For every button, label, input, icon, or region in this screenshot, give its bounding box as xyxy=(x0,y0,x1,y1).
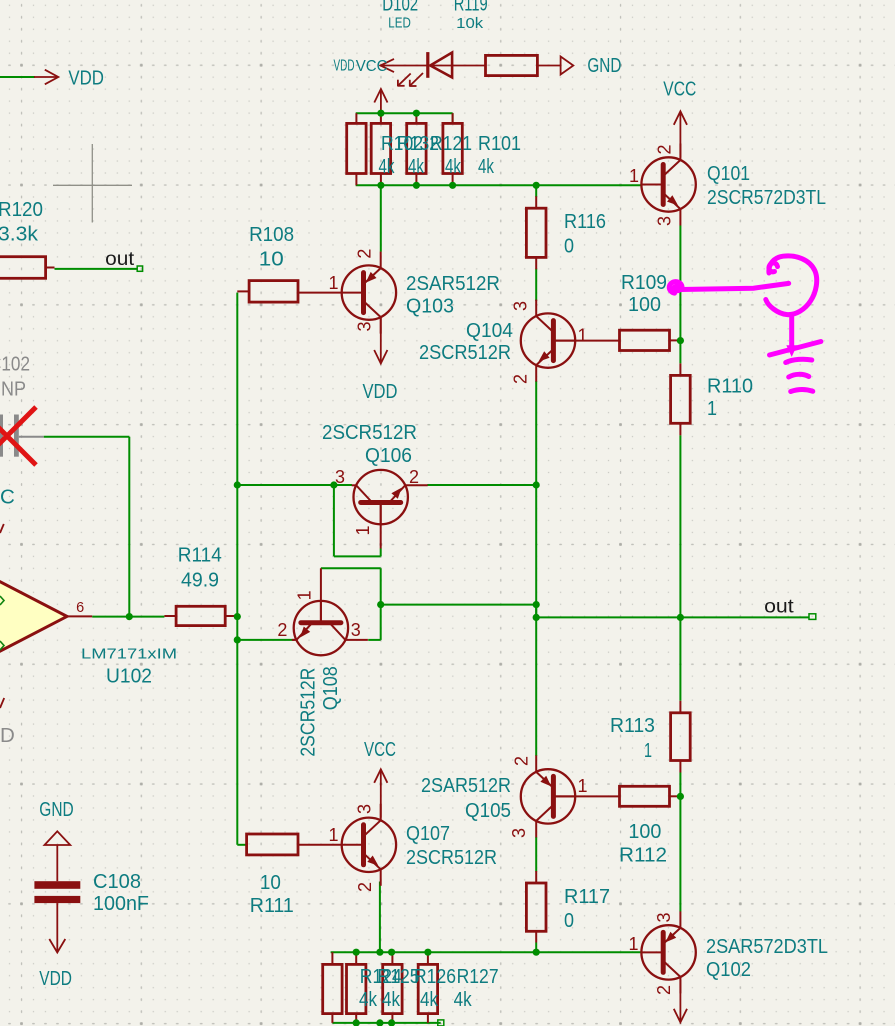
junction at 391.6,952.2 xyxy=(388,949,395,956)
svg-text:49.9: 49.9 xyxy=(181,569,219,592)
junction at 680.4,340.6 xyxy=(677,337,684,344)
wire C102 to output node xyxy=(44,436,130,438)
svg-text:R112: R112 xyxy=(619,844,667,867)
junction at 536.2,952.2 xyxy=(533,949,540,956)
resistor bank top: R102 R132 R121 R101 xyxy=(355,113,357,123)
svg-text:10: 10 xyxy=(259,248,284,271)
svg-text:Q107: Q107 xyxy=(406,822,450,845)
svg-text:VDD: VDD xyxy=(39,967,72,990)
svg-text:R114: R114 xyxy=(178,544,222,567)
dangling end square bottom bank xyxy=(438,1020,444,1026)
junction at 356.2,952.2 xyxy=(353,949,360,956)
wire R116 to Q104 collector xyxy=(535,269,537,301)
power GND right of R119 xyxy=(537,65,560,67)
svg-text:C108: C108 xyxy=(93,870,141,893)
wire R117 to bottom rail xyxy=(535,943,537,953)
svg-text:C: C xyxy=(0,486,15,509)
svg-text:1: 1 xyxy=(628,934,638,954)
svg-text:Q108: Q108 xyxy=(319,666,342,710)
op-amp U102 xyxy=(0,536,67,697)
svg-text:4k: 4k xyxy=(379,155,396,178)
junction at 536.2,604.6 xyxy=(533,601,540,608)
svg-text:R119: R119 xyxy=(454,0,488,16)
svg-text:Q106: Q106 xyxy=(365,444,412,467)
wire out net xyxy=(536,616,809,618)
wire bottom rail xyxy=(331,951,642,953)
power VDD top-left xyxy=(34,76,58,78)
svg-text:LED: LED xyxy=(388,15,411,32)
svg-text:D: D xyxy=(0,724,15,747)
svg-text:3: 3 xyxy=(354,321,374,331)
svg-text:3: 3 xyxy=(509,828,529,838)
power VCC above Q107 xyxy=(380,769,382,817)
junction at 427.9,952.2 xyxy=(424,949,431,956)
resistor R113 xyxy=(679,701,681,713)
svg-text:3: 3 xyxy=(354,804,374,814)
wire R110 to R113 right bus xyxy=(679,435,681,701)
svg-text:R117: R117 xyxy=(564,885,610,908)
svg-text:R111: R111 xyxy=(250,894,294,917)
svg-text:VDD: VDD xyxy=(363,380,398,403)
svg-text:Q103: Q103 xyxy=(406,295,454,318)
wire VDD feed top-left xyxy=(0,76,35,78)
svg-text:2SCR512R: 2SCR512R xyxy=(297,668,320,757)
svg-text:2SCR572D3TL: 2SCR572D3TL xyxy=(707,186,826,209)
wire bank2 bottom rail xyxy=(332,1022,440,1024)
svg-text:R109: R109 xyxy=(621,271,667,294)
svg-text:1: 1 xyxy=(353,525,373,535)
resistor R110 xyxy=(679,363,681,375)
diode D102 LED xyxy=(381,65,486,67)
resistor bank bottom: R124 R125 R126 R127 xyxy=(331,952,333,964)
svg-text:GND: GND xyxy=(39,798,73,821)
svg-text:1: 1 xyxy=(629,166,639,186)
svg-text:Q102: Q102 xyxy=(706,958,751,981)
svg-text:3: 3 xyxy=(655,216,675,226)
wire R120 out net xyxy=(55,268,138,270)
svg-text:Q101: Q101 xyxy=(707,162,750,185)
svg-text:1: 1 xyxy=(707,397,717,420)
junction at 380.9,185.3 xyxy=(377,182,384,189)
wire Q106 left net xyxy=(237,484,352,486)
junction at 416.4,113.2 xyxy=(413,110,420,117)
junction at 536.2,185.3 xyxy=(533,182,540,189)
svg-text:2: 2 xyxy=(354,249,374,259)
svg-text:4k: 4k xyxy=(454,988,473,1011)
wire top rail of R101 bank xyxy=(356,112,453,114)
svg-text:PNP: PNP xyxy=(0,378,26,401)
svg-text:C102: C102 xyxy=(0,353,30,376)
wire Q106 base loop xyxy=(380,549,382,557)
wire Q106 right net xyxy=(427,484,536,486)
wire drop to R101 xyxy=(452,113,454,124)
svg-text:4k: 4k xyxy=(445,155,462,178)
wire C102 net gray xyxy=(19,436,44,438)
svg-text:2: 2 xyxy=(409,467,419,487)
svg-text:VCC: VCC xyxy=(663,77,696,100)
svg-text:2: 2 xyxy=(655,144,675,154)
wire Q108 base drop xyxy=(380,568,382,640)
svg-text:4k: 4k xyxy=(408,155,425,178)
svg-text:R120: R120 xyxy=(0,198,43,221)
junction at 237.3,616.6 xyxy=(234,613,241,620)
junction at 380.9,113.2 xyxy=(377,110,384,117)
resistor R119 xyxy=(486,55,538,75)
power GND bottom-left xyxy=(45,831,71,845)
svg-text:3: 3 xyxy=(351,620,361,640)
svg-text:2SCR512R: 2SCR512R xyxy=(322,421,417,444)
transistor Q103 PNP xyxy=(342,265,396,319)
svg-text:100: 100 xyxy=(628,293,661,316)
svg-text:2SCR512R: 2SCR512R xyxy=(419,341,511,364)
svg-text:2: 2 xyxy=(510,374,530,384)
transistor Q106 NPN diode-connected xyxy=(354,470,408,524)
svg-text:2: 2 xyxy=(277,620,287,640)
svg-text:R126: R126 xyxy=(414,965,456,988)
svg-text:3: 3 xyxy=(510,301,530,311)
svg-text:1: 1 xyxy=(328,273,338,293)
svg-text:R110: R110 xyxy=(707,375,753,398)
power VDD at LED (left arrow) xyxy=(381,59,395,72)
svg-text:2: 2 xyxy=(654,985,674,995)
wire R116 top xyxy=(535,185,537,197)
svg-text:100nF: 100nF xyxy=(93,892,149,915)
junction at 680.4,617.4 xyxy=(677,614,684,621)
capacitor C108 xyxy=(34,881,80,889)
resistor R116 xyxy=(535,196,537,208)
svg-text:1: 1 xyxy=(578,776,588,796)
power VDD below Q103 xyxy=(380,318,382,364)
junction at 379.9,1022.9 xyxy=(376,1019,383,1026)
power VCC above R-bank xyxy=(380,89,382,113)
transistor Q101 NPN xyxy=(641,157,695,211)
svg-text:0: 0 xyxy=(564,235,574,258)
svg-text:R121: R121 xyxy=(430,132,472,155)
svg-text:3.3k: 3.3k xyxy=(0,223,39,246)
junction at 680.4,796.4 xyxy=(677,793,684,800)
wire Q108 base top xyxy=(321,567,381,569)
svg-text:Q104: Q104 xyxy=(466,319,513,342)
wire Q107 emitter to bottom rail xyxy=(379,882,381,953)
resistor R117 xyxy=(535,871,537,883)
wire R113 to Q102 xyxy=(679,773,681,912)
junction at 416.4,185.3 xyxy=(413,182,420,189)
svg-text:R113: R113 xyxy=(610,714,655,737)
resistor R112 xyxy=(670,795,681,797)
svg-text:2SAR572D3TL: 2SAR572D3TL xyxy=(706,935,828,958)
wire op-amp out to R114 xyxy=(92,616,164,618)
op-amp input marks xyxy=(0,596,4,605)
wire Q108 emitter stub join xyxy=(368,639,381,641)
transistor Q104 NPN xyxy=(521,313,575,367)
svg-text:VDD: VDD xyxy=(68,66,104,89)
junction at 452.6,185.3 xyxy=(449,182,456,189)
svg-text:4k: 4k xyxy=(382,988,401,1011)
svg-text:2SAR512R: 2SAR512R xyxy=(406,272,500,295)
svg-text:R116: R116 xyxy=(564,210,606,233)
svg-text:1: 1 xyxy=(295,590,315,600)
LED light arrows xyxy=(398,74,410,86)
svg-text:10k: 10k xyxy=(456,15,484,32)
power below Q102 xyxy=(679,980,681,1023)
svg-text:out: out xyxy=(764,596,794,618)
svg-text:2SCR512R: 2SCR512R xyxy=(406,846,497,869)
svg-text:LM7171xIM: LM7171xIM xyxy=(81,646,177,663)
wire Q105 to R117 xyxy=(535,837,537,872)
svg-text:U102: U102 xyxy=(106,665,152,688)
junction at 129.3,616.6 xyxy=(126,613,133,620)
svg-text:0: 0 xyxy=(564,909,574,932)
svg-text:1: 1 xyxy=(644,739,652,762)
wire Q101 emitter down right bus xyxy=(679,226,681,364)
capacitor C102 DNP crossed out xyxy=(0,415,3,457)
junction at 237.3,639.9 xyxy=(234,636,241,643)
svg-text:GND: GND xyxy=(587,54,621,77)
svg-text:2SAR512R: 2SAR512R xyxy=(421,774,511,797)
junction at 237.3,485.0 xyxy=(234,481,241,488)
svg-text:R108: R108 xyxy=(249,223,294,246)
svg-text:4k: 4k xyxy=(359,988,378,1011)
junction at 379.9,952.2 xyxy=(376,949,383,956)
junction at 380.7,604.6 xyxy=(377,601,384,608)
svg-text:R127: R127 xyxy=(457,965,499,988)
svg-text:10: 10 xyxy=(260,871,281,894)
wire into R111 xyxy=(237,844,247,846)
junction at 356.2,1022.9 xyxy=(353,1019,360,1026)
junction at 536.2,617.4 xyxy=(533,614,540,621)
junction at 536.2,485.0 xyxy=(533,481,540,488)
wire Q104 emitter down mid bus xyxy=(535,381,537,756)
freehand probe scribble magenta xyxy=(669,256,821,392)
svg-text:D102: D102 xyxy=(382,0,418,16)
svg-text:out: out xyxy=(105,248,135,270)
power VCC above Q101 xyxy=(679,111,681,157)
wire Q103 collector to bank rail xyxy=(380,185,382,252)
svg-text:100: 100 xyxy=(628,820,661,843)
resistor R111 xyxy=(247,834,298,855)
resistor R109 xyxy=(670,339,681,341)
crosshair origin marker xyxy=(53,184,132,186)
junction at 333.9,485.0 xyxy=(330,481,337,488)
svg-text:2: 2 xyxy=(512,756,532,766)
transistor Q108 NPN diode-connected xyxy=(294,601,348,655)
junction at 391.6,1022.9 xyxy=(388,1019,395,1026)
DNP cross xyxy=(0,407,36,465)
svg-text:R101: R101 xyxy=(478,132,521,155)
transistor Q105 PNP xyxy=(521,769,575,823)
svg-text:3: 3 xyxy=(654,912,674,922)
transistor Q107 NPN xyxy=(342,818,396,872)
svg-text:4k: 4k xyxy=(478,155,495,178)
wire bottom rail of R101 bank / Q101 base net xyxy=(356,184,642,186)
svg-text:VCC: VCC xyxy=(364,738,396,761)
wire Q108 collector to left bus xyxy=(237,639,294,641)
svg-text:1: 1 xyxy=(578,326,588,346)
svg-text:6: 6 xyxy=(76,600,84,616)
wire out net drop xyxy=(535,605,537,618)
svg-text:4k: 4k xyxy=(420,988,439,1011)
wire mid join line xyxy=(381,604,537,606)
wire left bus R108-R114-R111 xyxy=(236,293,238,845)
transistor Q102 PNP xyxy=(641,925,695,979)
power VDD bottom-left xyxy=(56,903,58,952)
resistor R120 xyxy=(46,267,55,269)
svg-text:VDD: VDD xyxy=(334,58,355,75)
resistor R114 xyxy=(164,615,176,617)
svg-text:1: 1 xyxy=(328,825,338,845)
svg-text:Q105: Q105 xyxy=(465,799,511,822)
resistor R108 xyxy=(237,290,249,292)
svg-text:2: 2 xyxy=(355,882,375,892)
